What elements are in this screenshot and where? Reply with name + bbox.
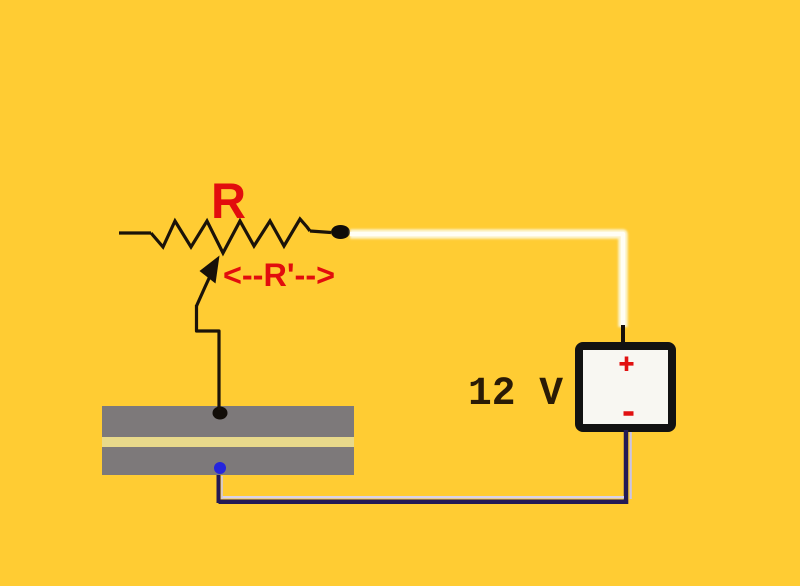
wire: cream wire bright core (350, 234, 623, 327)
voltage source U1 (12 V box) (579, 346, 672, 428)
capacitor: bottom plate (102, 447, 354, 475)
wire: navy left vertical light highlight (221, 476, 223, 499)
svg-text:12 V: 12 V (468, 372, 563, 417)
wire: right lead of resistor (310, 231, 331, 233)
node: blue terminal dot on bottom plate (214, 462, 226, 474)
node: junction dot at resistor right terminal (331, 225, 350, 239)
wire: wiper wire from top plate up (stepped) (197, 305, 220, 410)
wire: navy vertical up to capacitor bottom plate (217, 474, 221, 503)
wire: black stub into voltage source top (621, 325, 625, 344)
wire: wiper diagonal shaft (197, 274, 212, 306)
svg-text:<--R'-->: <--R'--> (223, 257, 335, 293)
wire: cream wire from node to voltage source top (outer glow) (350, 234, 623, 327)
wire: navy horizontal light highlight (222, 496, 624, 499)
wire: navy wire from source bottom (dark stroke) (219, 430, 629, 502)
wire: navy vertical light highlight (630, 432, 632, 499)
capacitor: gap band (102, 437, 354, 447)
label: - terminal (624, 411, 634, 416)
resistor R (zigzag body) (151, 219, 310, 253)
svg-text:R: R (211, 173, 246, 229)
wiper arrowhead pointing to resistor (200, 256, 220, 284)
node: black dot on top plate (213, 407, 228, 420)
label: + terminal (620, 357, 634, 372)
capacitor: top plate (102, 406, 354, 437)
wire: left lead of resistor (119, 231, 151, 234)
